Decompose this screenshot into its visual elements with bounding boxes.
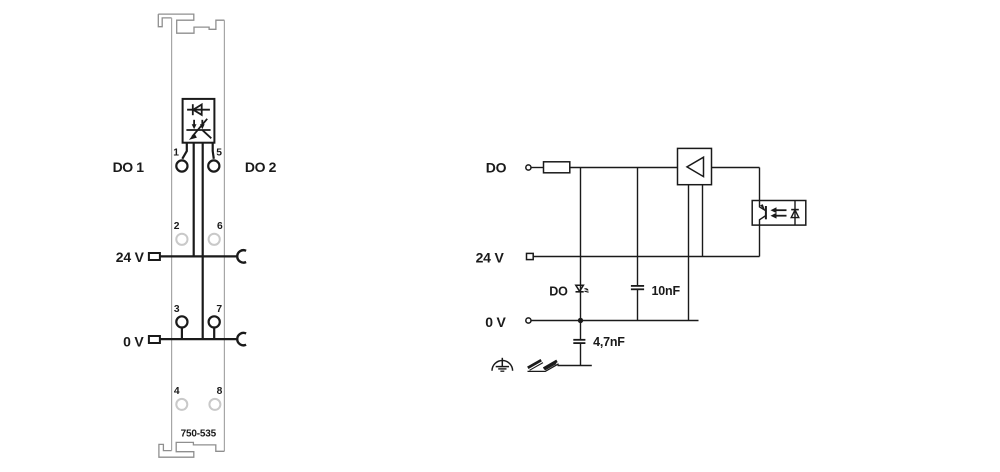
svg-text:DO 1: DO 1 [113, 159, 145, 175]
24V terminal square [527, 253, 534, 259]
LED indicator symbol in LED box [186, 119, 211, 139]
DO LED emission arrows [585, 289, 589, 293]
arrowheads for LED symbol [189, 124, 205, 140]
vertical branch V2 with 10nF [637, 168, 639, 286]
DO input terminal [526, 165, 531, 170]
amp pin to 24V [702, 185, 704, 257]
light arrow upper [775, 209, 787, 211]
svg-text:6: 6 [217, 221, 223, 232]
svg-text:750-535: 750-535 [181, 429, 217, 440]
terminal 6 (unused) [209, 234, 220, 245]
earth ground symbol [492, 358, 513, 371]
0V rail wire module [160, 338, 237, 340]
resistor R1 [544, 162, 570, 173]
svg-text:DO: DO [486, 159, 507, 175]
wire opto to 24V rail [759, 225, 761, 256]
0V terminal circle [526, 318, 531, 323]
24V rail schematic [533, 256, 759, 258]
24V rail wire module [160, 255, 237, 257]
wire DO terminal to resistor [531, 167, 543, 169]
terminal 2 (unused) [176, 234, 187, 245]
24V pass-through connector arc [237, 250, 246, 262]
phototransistor base bar [765, 206, 767, 219]
svg-text:0 V: 0 V [123, 333, 144, 349]
phototransistor emitter [760, 216, 766, 226]
phototransistor arrow [760, 204, 765, 210]
light arrow lower [775, 215, 787, 217]
earth rail line [558, 365, 592, 367]
wire leg 3 from LED box to 0V rail [202, 143, 204, 339]
opto LED triangle [791, 210, 799, 218]
vertical branch V1 with DO LED [580, 168, 582, 321]
svg-text:24 V: 24 V [116, 249, 145, 265]
opto LED cathode bar [791, 209, 799, 211]
amplifier box U1 [678, 148, 712, 184]
stem terminal 7 to 0V rail [213, 328, 215, 340]
terminal 3 [176, 316, 187, 327]
svg-text:4,7nF: 4,7nF [593, 335, 625, 349]
module left edge [171, 18, 173, 451]
opto LED wire [794, 201, 796, 226]
svg-text:5: 5 [216, 148, 222, 159]
svg-text:0 V: 0 V [485, 314, 506, 330]
module body outline top [158, 14, 224, 33]
wire leg 1 from LED box to terminal 1 [182, 143, 187, 159]
optocoupler box [752, 201, 806, 226]
wire down to 4,7nF [580, 321, 582, 340]
module right edge [223, 20, 225, 451]
wire resistor to amp [570, 167, 678, 169]
junction dot 0V [578, 318, 583, 323]
svg-text:DO 2: DO 2 [245, 159, 277, 175]
wire leg 2 from LED box to 24V rail [193, 143, 195, 257]
wire amp out right [712, 167, 760, 169]
wire down to optocoupler [759, 168, 761, 201]
svg-text:24 V: 24 V [476, 249, 505, 265]
terminal 7 [209, 316, 220, 327]
svg-text:10nF: 10nF [652, 284, 681, 298]
svg-text:1: 1 [173, 148, 179, 159]
24V feed square module [149, 253, 160, 260]
DIN rail icon [528, 360, 559, 371]
DO LED triangle [576, 285, 584, 291]
capacitor 4,7nF plates [573, 339, 585, 341]
amp pin to 0V [688, 185, 690, 321]
svg-text:4: 4 [174, 386, 180, 397]
LED box [183, 99, 215, 143]
svg-text:7: 7 [216, 304, 222, 315]
svg-text:DO: DO [549, 284, 568, 298]
amplifier triangle [687, 157, 704, 176]
svg-text:3: 3 [174, 304, 180, 315]
wire 4,7nF to rail earth [580, 344, 582, 366]
0V pass-through connector arc [237, 333, 246, 345]
0V feed square module [149, 336, 160, 343]
stem terminal 3 to 0V rail [181, 328, 183, 340]
diode D1 in LED box [187, 104, 210, 115]
terminal 8 (unused) [209, 399, 220, 410]
wire leg 4 from LED box to terminal 5 [213, 143, 214, 159]
phototransistor collector [760, 201, 766, 211]
terminal 1 [176, 160, 187, 171]
module body outline bottom foot [159, 442, 225, 457]
terminal 4 (unused) [176, 399, 187, 410]
DO LED cathode bar [576, 291, 584, 293]
svg-text:8: 8 [217, 386, 223, 397]
0V rail schematic [531, 320, 698, 322]
capacitor 10nF plates [631, 285, 644, 287]
terminal 5 [208, 160, 219, 171]
svg-text:2: 2 [174, 221, 180, 232]
